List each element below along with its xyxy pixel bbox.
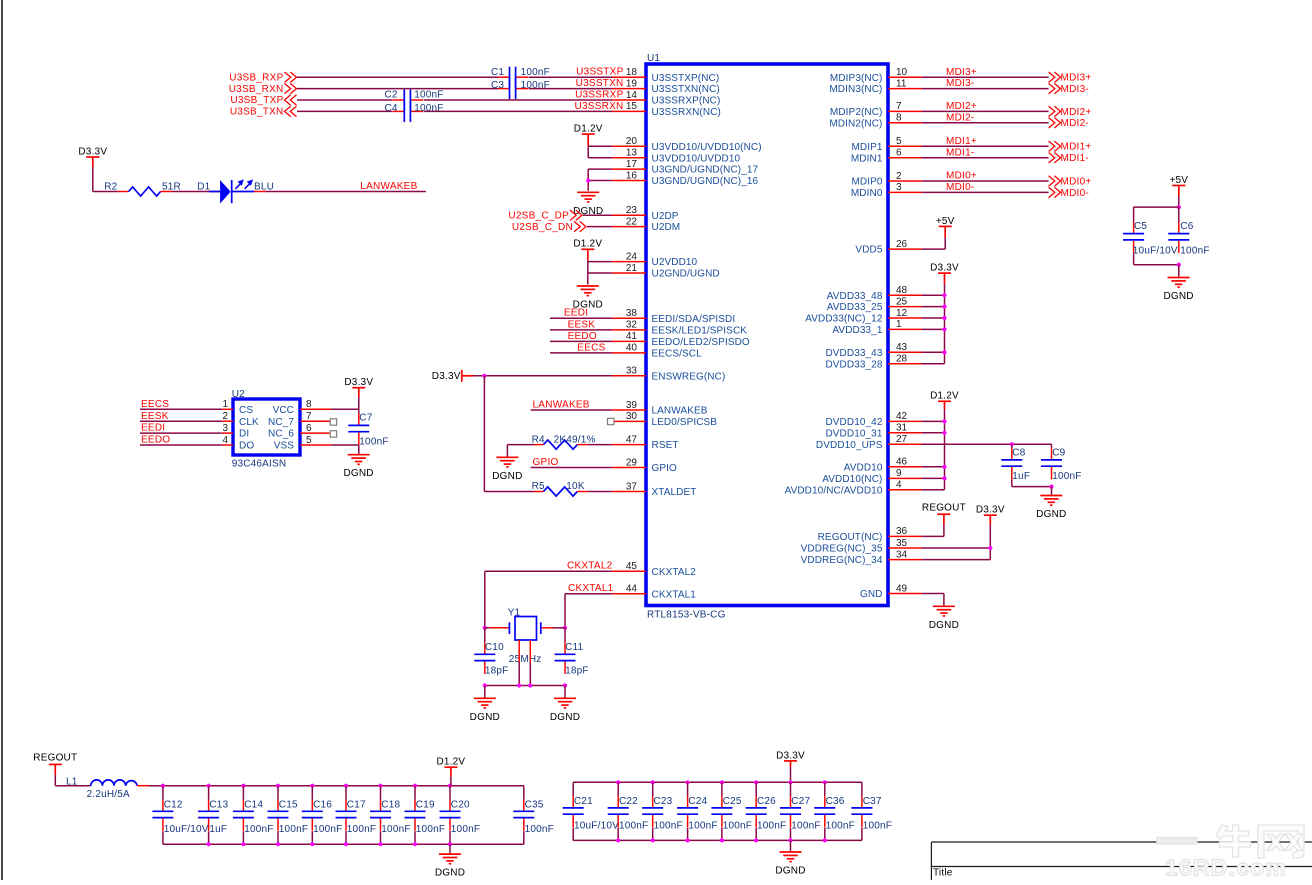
junction C22 bottom xyxy=(616,838,620,842)
svg-text:EEDI: EEDI xyxy=(564,308,588,319)
wire D3.3V to pins 35/34 xyxy=(989,525,991,560)
svg-text:13: 13 xyxy=(626,148,638,159)
svg-text:EESK: EESK xyxy=(141,411,169,422)
svg-text:44: 44 xyxy=(626,584,638,595)
no-connect marker U2 pin 6 xyxy=(330,431,336,437)
no-connect marker U2 pin 7 xyxy=(330,419,336,425)
U1 pin 5 xyxy=(888,145,922,147)
svg-text:U3SSRXN: U3SSRXN xyxy=(575,101,624,112)
wire LANWAKEB to pin 39 xyxy=(531,409,612,411)
wire U2SB_C_DP to pin 23 xyxy=(583,214,612,216)
wire to C12 xyxy=(162,786,164,800)
wire DVDD10_UPS to C8/C9 xyxy=(922,443,1052,445)
svg-text:AVDD33_25: AVDD33_25 xyxy=(827,302,883,313)
port MDI0- xyxy=(1049,187,1061,197)
port MDI2- xyxy=(1049,118,1061,128)
U1 pin 1 xyxy=(888,328,922,330)
svg-text:AVDD33_1: AVDD33_1 xyxy=(832,325,882,336)
junction C18 bottom xyxy=(378,842,382,846)
wire C37 bottom xyxy=(861,828,863,841)
crystal Y1 xyxy=(509,617,540,641)
U2 pin 3 xyxy=(222,432,233,434)
svg-text:C13: C13 xyxy=(209,800,228,811)
svg-text:EEDO/LED2/SPISDO: EEDO/LED2/SPISDO xyxy=(652,337,750,348)
ground xyxy=(554,698,576,708)
wire +5V to pin 26 xyxy=(944,237,946,249)
wire to C5 xyxy=(1133,207,1135,222)
svg-text:CS: CS xyxy=(239,405,253,416)
wire C5 bottom xyxy=(1133,253,1135,265)
U1 pin 14 xyxy=(612,99,646,101)
svg-text:C15: C15 xyxy=(279,800,298,811)
svg-text:6: 6 xyxy=(896,148,902,159)
svg-text:U3SB_RXN: U3SB_RXN xyxy=(229,84,284,95)
svg-text:100nF: 100nF xyxy=(826,820,855,831)
ground xyxy=(780,852,802,862)
junction D3.3V branch xyxy=(482,374,486,378)
svg-text:48: 48 xyxy=(896,285,908,296)
svg-text:18: 18 xyxy=(626,67,638,78)
wire to C37 xyxy=(861,782,863,796)
svg-text:U3SSRXP: U3SSRXP xyxy=(575,89,624,100)
svg-text:U3GND/UGND(NC)_16: U3GND/UGND(NC)_16 xyxy=(652,176,759,187)
capacitor C11 xyxy=(555,643,576,674)
svg-text:DGND: DGND xyxy=(1163,291,1193,302)
svg-text:MDI0+: MDI0+ xyxy=(946,171,977,182)
svg-text:100nF: 100nF xyxy=(416,824,445,835)
power D1.2V xyxy=(582,134,595,146)
svg-text:R5: R5 xyxy=(532,481,545,492)
wire EECS xyxy=(550,352,612,354)
junction crystal left xyxy=(483,626,487,630)
svg-text:D3.3V: D3.3V xyxy=(776,750,805,761)
junction xyxy=(942,431,946,435)
wire MDI2- xyxy=(922,122,1049,124)
junction C25 top xyxy=(720,780,724,784)
svg-text:100nF: 100nF xyxy=(525,824,554,835)
U1 pin 6 xyxy=(888,157,922,159)
junction C23 top xyxy=(651,780,655,784)
svg-text:AVDD10/NC/AVDD10: AVDD10/NC/AVDD10 xyxy=(785,485,883,496)
junction C25 bottom xyxy=(720,838,724,842)
power +5V xyxy=(1172,186,1185,197)
svg-text:CKXTAL1: CKXTAL1 xyxy=(568,583,614,594)
wire to R2 xyxy=(93,191,118,193)
U1 pin 44 xyxy=(612,593,646,595)
svg-text:MDI2+: MDI2+ xyxy=(1061,107,1092,118)
svg-text:EESK/LED1/SPISCK: EESK/LED1/SPISCK xyxy=(652,326,748,337)
svg-text:AVDD10(NC): AVDD10(NC) xyxy=(822,474,882,485)
junction C13 top xyxy=(207,784,211,788)
ground xyxy=(577,192,599,202)
U1 pin 17 xyxy=(612,168,646,170)
junction xyxy=(942,316,946,320)
U1 pin 31 xyxy=(888,432,922,434)
svg-text:EESK: EESK xyxy=(568,319,596,330)
junction C36 bottom xyxy=(823,838,827,842)
svg-text:18pF: 18pF xyxy=(565,665,589,676)
power D3.3V xyxy=(86,157,99,167)
junction xyxy=(942,419,946,423)
svg-text:D3.3V: D3.3V xyxy=(432,371,461,382)
junction C27 top xyxy=(788,780,792,784)
U1 pin 43 xyxy=(888,351,922,353)
wire VSS pin5 xyxy=(331,444,359,446)
svg-text:C8: C8 xyxy=(1012,448,1025,459)
U1 pin 19 xyxy=(612,88,646,90)
svg-text:DVDD33_43: DVDD33_43 xyxy=(825,348,882,359)
junction C27 bottom xyxy=(788,838,792,842)
wire C5/C6 bottom bus xyxy=(1134,264,1179,266)
U2 pin 4 xyxy=(222,444,233,446)
svg-text:VDDREG(NC)_35: VDDREG(NC)_35 xyxy=(801,544,883,555)
wire D3.3V down xyxy=(92,167,94,192)
op-amp U2 93C46AISN IC body xyxy=(233,399,300,455)
svg-text:C19: C19 xyxy=(416,800,435,811)
svg-text:U3VDD10/UVDD10: U3VDD10/UVDD10 xyxy=(652,153,741,164)
capacitor C23 xyxy=(642,796,663,827)
svg-text:CKXTAL1: CKXTAL1 xyxy=(652,589,697,600)
wire REGOUT down xyxy=(54,775,56,786)
wire C8 bottom xyxy=(1011,479,1013,486)
svg-text:23: 23 xyxy=(626,205,638,216)
svg-text:EEDO: EEDO xyxy=(568,331,597,342)
wire C13 bottom xyxy=(208,831,210,844)
svg-text:10: 10 xyxy=(896,67,908,78)
svg-text:4: 4 xyxy=(222,435,228,446)
capacitor C24 xyxy=(677,796,698,827)
crystal case ground leads xyxy=(518,640,520,662)
capacitor C9 xyxy=(1041,448,1062,479)
svg-text:U2SB_C_DP: U2SB_C_DP xyxy=(508,210,569,221)
U1 pin 24 xyxy=(612,261,646,263)
power D3.3V xyxy=(938,273,951,284)
svg-text:DVDD10_31: DVDD10_31 xyxy=(825,428,882,439)
svg-text:93C46AISN: 93C46AISN xyxy=(232,459,287,470)
wire to C17 xyxy=(345,786,347,800)
wire D1.2V top bus xyxy=(149,785,524,787)
svg-text:REGOUT(NC): REGOUT(NC) xyxy=(818,532,883,543)
wire U3SB_TXN to C4 xyxy=(297,110,393,112)
wire ground bottom bus xyxy=(163,843,524,845)
svg-text:RTL8153-VB-CG: RTL8153-VB-CG xyxy=(647,610,726,621)
svg-text:C36: C36 xyxy=(826,796,845,807)
wire EEDI xyxy=(550,317,612,319)
wire to ground xyxy=(587,273,589,285)
capacitor C15 xyxy=(268,800,289,831)
svg-text:DGND: DGND xyxy=(343,468,373,479)
svg-text:51R: 51R xyxy=(162,181,181,192)
wire ground to R4 xyxy=(507,444,534,446)
wire C26 bottom xyxy=(755,828,757,841)
wire to C36 xyxy=(824,782,826,796)
svg-text:D1.2V: D1.2V xyxy=(574,124,603,135)
svg-text:100nF: 100nF xyxy=(414,89,443,100)
svg-text:19: 19 xyxy=(626,78,638,89)
junction crystal right xyxy=(563,626,567,630)
port MDI1- xyxy=(1049,153,1061,163)
U1 pin 32 xyxy=(612,329,646,331)
U1 pin 22 xyxy=(612,226,646,228)
U1 pin 21 xyxy=(612,272,646,274)
svg-text:MDIP0: MDIP0 xyxy=(851,177,882,188)
svg-text:MDIN2(NC): MDIN2(NC) xyxy=(829,118,882,129)
wire EECS to U2 xyxy=(140,408,222,410)
U2 pin 8 xyxy=(300,408,331,410)
wire REGOUT to L1 xyxy=(55,785,91,787)
wire D3.3V bus xyxy=(944,284,946,364)
port MDI3- xyxy=(1049,83,1061,93)
svg-text:GND: GND xyxy=(860,589,883,600)
wire R4 to ground xyxy=(506,445,508,457)
svg-text:36: 36 xyxy=(896,526,908,537)
wire to ground xyxy=(564,686,566,698)
capacitor C17 xyxy=(336,800,357,831)
svg-text:RSET: RSET xyxy=(652,440,679,451)
svg-text:17: 17 xyxy=(626,159,638,170)
wire to C24 xyxy=(687,782,689,796)
svg-text:7: 7 xyxy=(306,411,312,422)
svg-text:C5: C5 xyxy=(1134,221,1147,232)
svg-text:47: 47 xyxy=(626,434,638,445)
capacitor C35 xyxy=(513,800,534,831)
junction C12 top xyxy=(161,784,165,788)
svg-text:100nF: 100nF xyxy=(1052,471,1081,482)
svg-text:MDI1+: MDI1+ xyxy=(946,136,977,147)
svg-text:EECS/SCL: EECS/SCL xyxy=(652,349,703,360)
svg-text:VCC: VCC xyxy=(273,405,294,416)
svg-text:MDIN0: MDIN0 xyxy=(851,188,883,199)
wire MDI3+ xyxy=(922,76,1049,78)
U1 pin 40 xyxy=(612,352,646,354)
svg-text:MDI2+: MDI2+ xyxy=(946,101,977,112)
wire to C21 xyxy=(572,782,574,796)
ground xyxy=(933,606,955,616)
svg-text:26: 26 xyxy=(896,239,908,250)
svg-text:100nF: 100nF xyxy=(791,820,820,831)
svg-text:10uF/10V: 10uF/10V xyxy=(1133,245,1178,256)
svg-text:100nF: 100nF xyxy=(414,103,443,114)
svg-text:MDIP3(NC): MDIP3(NC) xyxy=(830,73,883,84)
svg-text:U3VDD10/UVDD10(NC): U3VDD10/UVDD10(NC) xyxy=(652,142,762,153)
svg-text:DVDD10_42: DVDD10_42 xyxy=(825,417,882,428)
wire to C14 xyxy=(242,786,244,800)
wire D1.2V bus xyxy=(944,410,946,490)
svg-text:C35: C35 xyxy=(525,800,544,811)
svg-text:D1.2V: D1.2V xyxy=(437,757,466,768)
wire to C15 xyxy=(277,786,279,800)
svg-text:7: 7 xyxy=(896,101,902,112)
svg-text:C27: C27 xyxy=(791,796,810,807)
ground xyxy=(439,854,461,864)
svg-text:+5V: +5V xyxy=(936,216,955,227)
resistor R4 xyxy=(544,440,578,449)
capacitor C10 xyxy=(474,643,495,674)
svg-text:C9: C9 xyxy=(1052,448,1065,459)
wire C7 to ground xyxy=(358,445,360,454)
svg-text:MDI1-: MDI1- xyxy=(1061,153,1089,164)
svg-text:40: 40 xyxy=(626,343,638,354)
U1 pin 20 xyxy=(612,145,646,147)
svg-text:LED0/SPICSB: LED0/SPICSB xyxy=(652,417,718,428)
svg-text:24: 24 xyxy=(626,251,638,262)
svg-text:U1: U1 xyxy=(647,53,660,64)
svg-text:MDI3+: MDI3+ xyxy=(946,67,977,78)
capacitor C14 xyxy=(233,800,254,831)
junction xyxy=(563,683,567,687)
U1 pin 46 xyxy=(888,466,922,468)
svg-text:2.2uH/5A: 2.2uH/5A xyxy=(87,789,130,800)
wire D3.3V to VCC/C7 xyxy=(358,397,360,415)
svg-text:C3: C3 xyxy=(491,80,504,91)
svg-text:U3SSTXN: U3SSTXN xyxy=(576,78,624,89)
wire MDI0+ xyxy=(922,180,1049,182)
svg-text:MDI3-: MDI3- xyxy=(1061,84,1089,95)
svg-text:5: 5 xyxy=(306,435,312,446)
junction C15 top xyxy=(276,784,280,788)
U1 pin 30 xyxy=(612,420,646,422)
svg-text:25MHz: 25MHz xyxy=(509,654,542,665)
svg-text:L1: L1 xyxy=(66,777,78,788)
wire C17 bottom xyxy=(345,831,347,844)
svg-text:R2: R2 xyxy=(104,181,117,192)
svg-text:U2DP: U2DP xyxy=(652,211,679,222)
svg-text:DGND: DGND xyxy=(1036,509,1066,520)
U1 pin 27 xyxy=(888,443,922,445)
power D1.2V xyxy=(938,401,951,410)
wire GND pin 49 xyxy=(922,593,944,595)
wire C2 to U1 pin 14 xyxy=(424,99,612,101)
wire to C35 xyxy=(523,786,525,800)
power REGOUT xyxy=(937,514,950,525)
power D3.3V xyxy=(352,388,365,397)
svg-text:C20: C20 xyxy=(451,800,470,811)
svg-text:34: 34 xyxy=(896,549,908,560)
U1 pin 7 xyxy=(888,110,922,112)
svg-text:Title: Title xyxy=(933,868,953,879)
svg-text:C21: C21 xyxy=(574,796,593,807)
svg-text:30: 30 xyxy=(626,411,638,422)
svg-text:D3.3V: D3.3V xyxy=(976,505,1005,516)
wire U3SB_RXP to C1 xyxy=(297,76,498,78)
junction C19 bottom xyxy=(413,842,417,846)
U1 pin 25 xyxy=(888,306,922,308)
power REGOUT (bottom) xyxy=(49,764,62,775)
wire to C10 xyxy=(484,628,486,643)
wire C15 bottom xyxy=(277,831,279,844)
junction xyxy=(528,683,532,687)
svg-text:100nF: 100nF xyxy=(521,67,550,78)
svg-text:12: 12 xyxy=(896,308,908,319)
svg-text:100nF: 100nF xyxy=(688,820,717,831)
capacitor C27 xyxy=(780,796,801,827)
svg-text:DGND: DGND xyxy=(550,712,580,723)
svg-text:C2: C2 xyxy=(385,89,398,100)
port MDI0+ xyxy=(1049,176,1061,186)
svg-text:GPIO: GPIO xyxy=(652,463,678,474)
U1 pin 15 xyxy=(612,110,646,112)
svg-text:EEDI: EEDI xyxy=(141,423,165,434)
power D1.2V (bottom bank) xyxy=(444,767,457,777)
junction xyxy=(942,476,946,480)
capacitor C8 xyxy=(1001,448,1022,479)
U1 pin 36 xyxy=(888,535,922,537)
svg-text:2: 2 xyxy=(222,411,228,422)
junction C16 bottom xyxy=(310,842,314,846)
svg-text:C26: C26 xyxy=(757,796,776,807)
svg-text:100nF: 100nF xyxy=(451,824,480,835)
svg-text:U3SSRXP(NC): U3SSRXP(NC) xyxy=(652,96,721,107)
wire C1 to U1 pin 18 xyxy=(529,76,612,78)
svg-text:AVDD33_48: AVDD33_48 xyxy=(827,291,883,302)
U1 pin 48 xyxy=(888,294,922,296)
junction xyxy=(517,683,521,687)
wire to ground xyxy=(790,840,792,851)
U2 pin 6 xyxy=(300,432,330,434)
wire to C20 xyxy=(449,786,451,800)
svg-text:C12: C12 xyxy=(164,800,183,811)
wire MDI2+ xyxy=(922,110,1049,112)
port MDI3+ xyxy=(1049,72,1061,82)
svg-text:100nF: 100nF xyxy=(359,437,388,448)
ground xyxy=(474,698,496,708)
svg-text:38: 38 xyxy=(626,308,638,319)
svg-text:10uF/10V: 10uF/10V xyxy=(164,824,209,835)
wire EEDI to U2 xyxy=(140,432,222,434)
junction C16 top xyxy=(310,784,314,788)
capacitor C18 xyxy=(370,800,391,831)
wire to C9 xyxy=(1051,444,1053,448)
U1 pin 18 xyxy=(612,76,646,78)
svg-text:REGOUT: REGOUT xyxy=(33,753,77,764)
watermark 16rd.com logo xyxy=(1157,825,1304,858)
wire to C11 xyxy=(564,628,566,643)
svg-text:C37: C37 xyxy=(863,796,882,807)
svg-text:DGND: DGND xyxy=(929,620,959,631)
svg-text:U3SSRXN(NC): U3SSRXN(NC) xyxy=(652,107,721,118)
svg-text:U3SB_TXP: U3SB_TXP xyxy=(230,95,283,106)
wire C16 bottom xyxy=(311,831,313,844)
wire U2SB_C_DN to pin 22 xyxy=(587,226,612,228)
wire C18 bottom xyxy=(380,831,382,844)
title block xyxy=(931,842,1312,880)
wire to C19 xyxy=(414,786,416,800)
svg-text:8: 8 xyxy=(896,113,902,124)
svg-text:U3SSTXP(NC): U3SSTXP(NC) xyxy=(652,73,720,84)
junction xyxy=(942,327,946,331)
capacitor C20 xyxy=(440,800,461,831)
junction xyxy=(988,546,992,550)
svg-text:2: 2 xyxy=(896,171,902,182)
LED D1 xyxy=(209,179,254,203)
ground xyxy=(577,286,599,296)
U1 pin 45 xyxy=(612,570,646,572)
junction C24 bottom xyxy=(686,838,690,842)
svg-text:1uF: 1uF xyxy=(209,824,227,835)
wire C19 bottom xyxy=(414,831,416,844)
wire C12 bottom xyxy=(162,831,164,844)
junction xyxy=(942,293,946,297)
ground xyxy=(1168,278,1190,288)
svg-text:100nF: 100nF xyxy=(347,824,376,835)
wire R4 to pin 47 xyxy=(588,444,612,446)
capacitor C19 xyxy=(405,800,426,831)
svg-text:C17: C17 xyxy=(347,800,366,811)
junction C15 bottom xyxy=(276,842,280,846)
svg-text:46: 46 xyxy=(896,457,908,468)
svg-text:42: 42 xyxy=(896,411,908,422)
svg-text:XTALDET: XTALDET xyxy=(652,487,697,498)
